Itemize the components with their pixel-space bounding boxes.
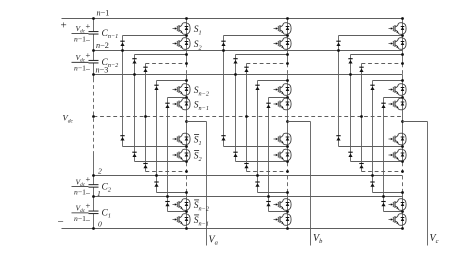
switch Sn-2bar phase c (IGBT with antiparallel diode) [389,199,407,211]
svg-text:S1: S1 [194,25,202,36]
wire - dc-link rail node 2 [94,175,403,177]
svg-text:S1: S1 [194,136,202,147]
clamp diode column 4 of phase b (tap, diodes D, wires) [255,79,289,194]
svg-text:S2: S2 [194,40,202,51]
svg-text:Vdc: Vdc [76,24,86,35]
svg-text:Vdc: Vdc [76,177,86,188]
switch Sn-1 phase a (IGBT with antiparallel diode) [173,98,191,110]
wire - dc-link rail node 1 [94,196,403,198]
wire - capacitor column upper segment [93,19,95,79]
node - phase b output junction [286,120,289,123]
svg-text:n−2: n−2 [96,41,109,50]
svg-text:Vb: Vb [313,233,323,245]
switch Sn-1bar phase b (IGBT with antiparallel diode) [274,214,292,226]
switch Sn-1bar phase a (IGBT with antiparallel diode) [173,214,191,226]
capacitor C_n-1 [92,32,96,35]
svg-text:−: − [86,215,91,225]
switch Sn-1 phase b (IGBT with antiparallel diode) [274,98,292,110]
switch S1bar phase a (IGBT with antiparallel diode) [173,133,191,145]
wire - phase c leg upper [402,19,404,64]
clamp diode column 1 of phase c (tap, diodes D, wires) [336,34,404,148]
switch Sn-2 phase c (IGBT with antiparallel diode) [389,84,407,96]
wire - phase a output [187,121,207,123]
svg-text:+: + [86,50,91,60]
svg-text:Cn−2: Cn−2 [102,58,119,69]
svg-text:0: 0 [98,219,102,228]
svg-text:n−1: n−1 [74,214,86,223]
switch S2 phase a (IGBT with antiparallel diode) [173,38,191,50]
node - phase b top rail junction [286,17,289,20]
svg-text:−: − [86,35,91,45]
wire - phase a leg middle [186,75,188,163]
svg-text:Va: Va [209,235,218,247]
clamp diode column 3 of phase a (tap, diodes D, wires) [143,62,188,173]
switch Sn-1 phase c (IGBT with antiparallel diode) [389,98,407,110]
wire - phase c leg dashed upper [402,64,404,75]
switch Sn-1bar phase c (IGBT with antiparallel diode) [389,214,407,226]
clamp diode column 3 of phase c (tap, diodes D, wires) [359,62,404,173]
clamp diode column 2 of phase c (tap, diodes D, wires) [348,53,404,163]
wire - phase b leg bottom [287,193,289,229]
svg-text:+: + [86,21,91,31]
dc midpoint junction [92,115,95,118]
svg-text:Cn−1: Cn−1 [102,29,119,40]
svg-text:n−1: n−1 [97,8,110,17]
svg-text:C2: C2 [102,182,111,193]
wire - positive dc rail (node n-1) [62,18,403,20]
svg-text:Vdc: Vdc [76,53,86,64]
svg-text:−: − [86,189,91,199]
node n-1 junction [92,17,95,20]
svg-text:2: 2 [98,166,102,175]
clamp diode column 2 of phase b (tap, diodes D, wires) [233,53,289,163]
wire - phase b leg middle [287,75,289,163]
switch S2 phase b (IGBT with antiparallel diode) [274,38,292,50]
clamp diode column 4 of phase a (tap, diodes D, wires) [154,79,188,194]
node 0 junction [92,227,95,230]
svg-text:+: + [61,19,67,31]
node - phase b bottom rail junction [286,227,289,230]
clamp diode column 5 of phase c (tap, diodes D, wires) [381,96,404,213]
wire - dashed dc midpoint rail [94,116,403,118]
capacitor C_n-2 [92,60,96,63]
switch Sn-2bar phase b (IGBT with antiparallel diode) [274,199,292,211]
switch S2bar phase c (IGBT with antiparallel diode) [389,149,407,161]
wire - phase c leg middle [402,75,404,163]
switch S2 phase c (IGBT with antiparallel diode) [389,38,407,50]
switch S1 phase b (IGBT with antiparallel diode) [274,23,292,35]
wire - phase c output [403,121,428,123]
svg-text:Vc: Vc [430,233,439,245]
switch S2bar phase b (IGBT with antiparallel diode) [274,149,292,161]
wire - phase b leg dashed upper [287,64,289,75]
switch S1bar phase b (IGBT with antiparallel diode) [274,133,292,145]
svg-text:Sn−2: Sn−2 [194,86,209,97]
wire - capacitor column lower segment [93,153,95,229]
svg-text:Vdc: Vdc [76,204,86,215]
wire - phase a leg dashed lower [186,163,188,193]
svg-text:−: − [86,64,91,74]
node - phase a output junction [185,120,188,123]
node - phase a bottom rail junction [185,227,188,230]
wire - phase c leg bottom [402,193,404,229]
wire - phase a leg dashed upper [186,64,188,75]
svg-text:S2: S2 [194,152,202,163]
svg-text:1: 1 [97,189,101,198]
wire - phase b leg dashed lower [287,163,289,193]
switch S2bar phase a (IGBT with antiparallel diode) [173,149,191,161]
clamp diode column 1 of phase b (tap, diodes D, wires) [221,34,289,148]
wire - negative dc rail (node 0) [62,228,403,230]
switch S1bar phase c (IGBT with antiparallel diode) [389,133,407,145]
wire - capacitor column dashed middle segment [93,79,95,153]
svg-text:Sn−1: Sn−1 [194,101,209,112]
svg-text:+: + [86,174,91,184]
svg-text:n−1: n−1 [74,64,86,73]
node n-3 junction [92,73,95,76]
node - phase c top rail junction [401,17,404,20]
node n-2 junction [92,49,95,52]
wire - phase a leg bottom [186,193,188,229]
svg-text:C1: C1 [102,209,111,220]
wire - dc-link rail node n-3 [94,74,403,76]
label Vdc/(n-1) for capacitor C1 [72,212,89,214]
svg-text:Vdc: Vdc [63,113,74,125]
wire - phase b leg upper [287,19,289,64]
label Vdc/(n-1) for capacitor Cn−1 [72,32,89,34]
svg-text:n−1: n−1 [74,35,86,44]
label Vdc/(n-1) for capacitor C2 [72,186,89,188]
node - phase a top rail junction [185,17,188,20]
svg-text:+: + [86,201,91,211]
clamp diode column 4 of phase c (tap, diodes D, wires) [370,79,404,194]
capacitor C1 [92,211,96,214]
node - phase c output junction [401,120,404,123]
clamp diode column 2 of phase a (tap, diodes D, wires) [132,53,188,163]
capacitor C2 [92,185,96,188]
wire - phase c leg dashed lower [402,163,404,193]
node 2 junction [92,174,95,177]
switch Sn-2 phase a (IGBT with antiparallel diode) [173,84,191,96]
wire - phase b output [288,121,311,123]
wire - phase a leg upper [186,19,188,64]
clamp diode column 3 of phase b (tap, diodes D, wires) [244,62,289,173]
switch S1 phase a (IGBT with antiparallel diode) [173,23,191,35]
wire - dc-link rail node n-2 [94,50,403,52]
switch Sn-2 phase b (IGBT with antiparallel diode) [274,84,292,96]
switch Sn-2bar phase a (IGBT with antiparallel diode) [173,199,191,211]
node 1 junction [92,195,95,198]
clamp diode column 5 of phase a (tap, diodes D, wires) [165,96,188,213]
node - phase c bottom rail junction [401,227,404,230]
svg-text:−: − [58,216,64,228]
label Vdc/(n-1) for capacitor Cn−2 [72,61,89,63]
svg-text:n−1: n−1 [74,188,86,197]
clamp diode column 1 of phase a (tap, diodes D, wires) [120,34,188,148]
clamp diode column 5 of phase b (tap, diodes D, wires) [266,96,289,213]
switch S1 phase c (IGBT with antiparallel diode) [389,23,407,35]
